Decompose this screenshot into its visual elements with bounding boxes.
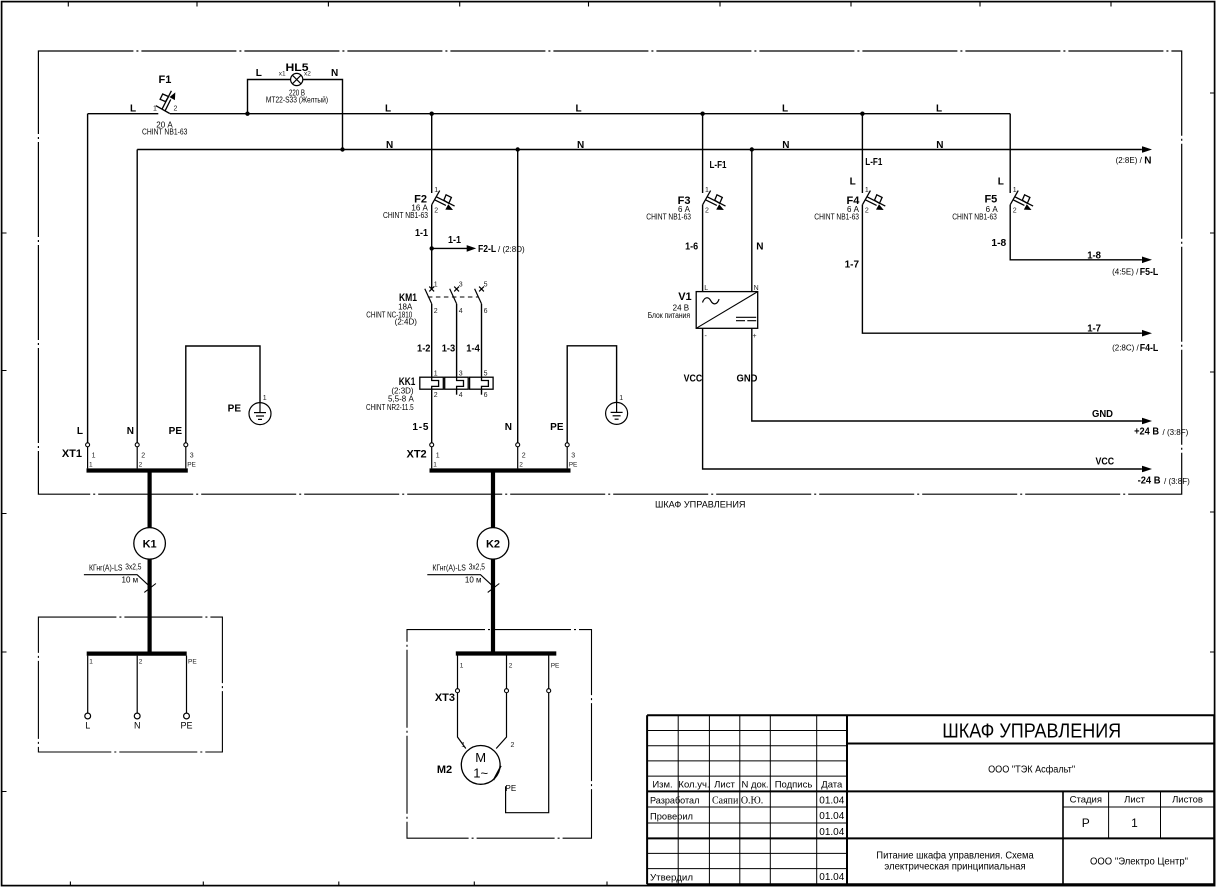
svg-text:V1: V1 — [678, 291, 691, 303]
svg-text:1-1: 1-1 — [415, 228, 428, 239]
svg-text:2: 2 — [434, 208, 438, 215]
svg-text:N: N — [1144, 155, 1151, 166]
svg-text:1: 1 — [461, 742, 465, 749]
svg-text:L: L — [256, 68, 262, 79]
svg-text:1~: 1~ — [473, 766, 488, 781]
wire XT3-PE — [548, 656, 550, 689]
wire KK1 stub 4 — [456, 389, 458, 395]
svg-text:Разработал: Разработал — [650, 796, 699, 807]
svg-text:10 м: 10 м — [465, 575, 482, 584]
svg-text:10 м: 10 м — [122, 575, 139, 584]
svg-text:Р: Р — [1082, 816, 1090, 830]
cable K1 — [84, 471, 166, 654]
svg-text:F5: F5 — [984, 194, 997, 206]
svg-text:(2:4D): (2:4D) — [395, 318, 418, 327]
svg-text:K1: K1 — [143, 538, 157, 550]
svg-text:1: 1 — [89, 658, 93, 665]
node junction N-V1 — [750, 147, 754, 151]
wire GND — [752, 328, 1142, 421]
svg-text:КГнг(А)-LS: КГнг(А)-LS — [432, 563, 466, 572]
wire motor 1 — [458, 693, 466, 749]
svg-text:КГнг(А)-LS: КГнг(А)-LS — [89, 563, 123, 572]
svg-text:2: 2 — [434, 308, 438, 315]
svg-text:2: 2 — [1013, 208, 1017, 215]
svg-text:2: 2 — [511, 742, 515, 749]
svg-text:1-4: 1-4 — [466, 344, 480, 355]
node N rail arrow — [1142, 146, 1152, 153]
svg-text:2: 2 — [519, 462, 523, 469]
svg-text:Лист: Лист — [1124, 795, 1145, 806]
svg-text:2: 2 — [141, 452, 145, 459]
svg-text:Блок питания: Блок питания — [648, 311, 690, 320]
breaker F4 — [814, 157, 885, 271]
svg-text:01.04: 01.04 — [819, 827, 844, 838]
svg-text:6: 6 — [484, 392, 488, 399]
wire 1-7 F4 out — [862, 205, 1142, 334]
svg-text:L: L — [998, 177, 1004, 188]
breaker F2 — [383, 187, 455, 220]
svg-text:3: 3 — [459, 282, 463, 289]
svg-text:L: L — [704, 285, 708, 292]
svg-text:Дата: Дата — [821, 780, 843, 791]
wire 1-2 KM1 to KK1 pole1 — [431, 304, 433, 377]
wire 1-5 KK1 to XT2 — [431, 389, 433, 443]
wire 1-3 KM1 to KK1 pole2 — [456, 304, 458, 377]
wire 1-4 KM1 to KK1 pole3 — [481, 304, 483, 377]
svg-text:PE: PE — [169, 426, 183, 437]
wire motor PE return — [506, 693, 549, 813]
svg-text:2: 2 — [174, 105, 178, 112]
svg-text:1-5: 1-5 — [412, 422, 428, 433]
svg-text:Подпись: Подпись — [775, 780, 813, 791]
wire XT1-2 to bar — [136, 447, 138, 469]
svg-text:2: 2 — [509, 663, 513, 670]
svg-text:(4:5E) /: (4:5E) / — [1112, 268, 1139, 277]
svg-text:N: N — [386, 140, 393, 151]
wire XT2 PE riser — [567, 346, 616, 443]
svg-text:(2:8C) /: (2:8C) / — [1112, 343, 1139, 352]
wire motor 2 — [496, 693, 506, 749]
wire XT2-2 to bar — [517, 447, 519, 469]
wire XT3-1 — [457, 656, 459, 689]
terminal XT2 — [407, 422, 579, 469]
svg-text:1: 1 — [263, 395, 267, 402]
svg-text:N: N — [577, 140, 584, 151]
svg-text:01.04: 01.04 — [819, 795, 844, 806]
svg-text:XT2: XT2 — [407, 449, 427, 461]
svg-text:CHINT NR2-11.5: CHINT NR2-11.5 — [366, 403, 414, 412]
power supply V1 — [648, 285, 759, 385]
load box 1 — [38, 617, 222, 752]
svg-text:/ (2:8D): / (2:8D) — [498, 245, 525, 254]
svg-text:1: 1 — [705, 187, 709, 194]
wire F5 feed — [1009, 114, 1011, 193]
svg-text:L-F1: L-F1 — [710, 160, 727, 171]
svg-text:1: 1 — [434, 187, 438, 194]
svg-text:N: N — [134, 721, 141, 731]
svg-text:PE: PE — [551, 663, 560, 670]
breaker F5 — [952, 177, 1033, 249]
svg-text:N: N — [127, 426, 134, 437]
svg-text:L-F1: L-F1 — [865, 157, 882, 168]
svg-text:N док.: N док. — [741, 780, 768, 791]
motor M2 — [437, 742, 516, 793]
svg-text:4: 4 — [459, 308, 463, 315]
svg-text:01.04: 01.04 — [819, 811, 844, 822]
wire XT2-1 to bar — [431, 447, 433, 469]
load box 2 (motor) — [407, 630, 592, 839]
svg-text:4: 4 — [459, 392, 463, 399]
svg-text:1: 1 — [436, 452, 440, 459]
svg-text:2: 2 — [139, 462, 143, 469]
node junction N-lamp — [340, 147, 344, 151]
wire 1-8 F5 out — [1010, 205, 1142, 260]
svg-text:Утвердил: Утвердил — [650, 872, 693, 883]
svg-text:2: 2 — [139, 658, 143, 665]
title block — [647, 715, 1214, 884]
svg-text:N: N — [505, 422, 512, 433]
svg-text:3: 3 — [571, 452, 575, 459]
svg-text:3: 3 — [459, 371, 463, 378]
svg-text:L: L — [77, 426, 83, 437]
svg-text:x2: x2 — [304, 71, 311, 78]
svg-text:PE: PE — [188, 658, 197, 665]
lamp HL5 — [256, 62, 338, 105]
svg-text:3x2,5: 3x2,5 — [469, 563, 486, 572]
svg-text:GND: GND — [737, 373, 758, 384]
svg-text:K2: K2 — [486, 538, 500, 550]
node junction L-F2 — [430, 112, 434, 116]
svg-text:PE: PE — [506, 784, 517, 793]
wire XT1 PE riser — [186, 346, 260, 443]
svg-text:N: N — [936, 140, 943, 151]
svg-text:1: 1 — [1131, 816, 1138, 830]
svg-text:1: 1 — [619, 395, 623, 402]
wire XT1 L drop — [87, 114, 89, 443]
svg-text:(2:8E) /: (2:8E) / — [1116, 156, 1143, 165]
load box 2 bus bar — [456, 651, 557, 655]
svg-text:N: N — [754, 285, 759, 292]
svg-text:1-8: 1-8 — [991, 238, 1006, 249]
wire XT2-3 to bar — [566, 447, 568, 469]
box1 terminals — [85, 658, 198, 730]
node junction L-lamp — [245, 112, 249, 116]
wire F4 feed — [861, 114, 863, 193]
wire KK1 stub 6 — [481, 389, 483, 395]
svg-text:F1: F1 — [159, 74, 172, 86]
svg-text:Изм.: Изм. — [652, 780, 672, 791]
svg-text:F5-L: F5-L — [1140, 267, 1159, 278]
svg-text:Проверил: Проверил — [650, 811, 693, 822]
svg-text:x1: x1 — [279, 71, 286, 78]
svg-text:1: 1 — [89, 462, 93, 469]
wire 1-1 F2 to KM1 — [431, 205, 433, 290]
wire XT1-3 to bar — [185, 447, 187, 469]
svg-text:3: 3 — [190, 452, 194, 459]
wire box1 N — [136, 656, 138, 714]
svg-text:/ (3:8F): / (3:8F) — [1163, 428, 1189, 437]
wire lamp branch left — [248, 80, 291, 114]
svg-text:/ (3:8F): / (3:8F) — [1164, 477, 1190, 486]
svg-text:1-8: 1-8 — [1087, 250, 1101, 261]
svg-text:2: 2 — [522, 452, 526, 459]
terminal XT1 — [62, 426, 197, 469]
svg-text:1-1: 1-1 — [448, 235, 461, 246]
svg-text:1: 1 — [433, 462, 437, 469]
cabinet label ШКАФ УПРАВЛЕНИЯ — [655, 500, 746, 511]
wire L rail — [88, 113, 1011, 115]
svg-text:ШКАФ УПРАВЛЕНИЯ: ШКАФ УПРАВЛЕНИЯ — [655, 500, 746, 511]
node off-page labels right — [385, 104, 1190, 487]
svg-text:XT3: XT3 — [435, 692, 455, 704]
svg-text:Стадия: Стадия — [1070, 795, 1102, 806]
svg-text:1: 1 — [153, 105, 157, 112]
svg-text:GND: GND — [1092, 409, 1113, 420]
load box 1 bus bar — [87, 651, 187, 655]
svg-text:F4-L: F4-L — [1140, 343, 1159, 354]
wire box1 PE — [186, 656, 188, 714]
svg-text:1: 1 — [865, 187, 869, 194]
terminal XT3 — [435, 663, 560, 704]
svg-text:XT1: XT1 — [62, 448, 82, 460]
svg-text:1: 1 — [434, 282, 438, 289]
wire F2 feed — [431, 114, 433, 193]
svg-text:ООО "ТЭК Асфальт": ООО "ТЭК Асфальт" — [988, 763, 1075, 775]
wire XT3-2 — [506, 656, 508, 689]
svg-text:Лист: Лист — [714, 780, 735, 791]
svg-text:1-7: 1-7 — [1087, 323, 1101, 334]
svg-text:PE: PE — [550, 422, 564, 433]
svg-text:5: 5 — [484, 371, 488, 378]
wire box1 L — [87, 656, 89, 714]
svg-text:+24 В: +24 В — [1134, 427, 1159, 438]
svg-text:MT22-S33 (Желтый): MT22-S33 (Желтый) — [266, 95, 328, 104]
svg-text:F2-L: F2-L — [478, 244, 496, 255]
svg-text:VCC: VCC — [684, 373, 703, 384]
svg-text:Саяпи О.Ю.: Саяпи О.Ю. — [712, 796, 763, 807]
svg-text:1-6: 1-6 — [685, 242, 698, 253]
svg-text:1: 1 — [92, 452, 96, 459]
svg-text:ШКАФ УПРАВЛЕНИЯ: ШКАФ УПРАВЛЕНИЯ — [942, 721, 1121, 743]
svg-text:1: 1 — [1013, 187, 1017, 194]
svg-text:CHINT NB1-63: CHINT NB1-63 — [142, 127, 188, 136]
svg-text:2: 2 — [865, 208, 869, 215]
wire F2-L tap arrow — [432, 247, 467, 249]
thermal relay KK1 — [366, 371, 493, 433]
wire XT1 N drop — [136, 150, 138, 444]
svg-text:CHINT NB1-63: CHINT NB1-63 — [814, 213, 859, 222]
XT2 bus bar — [430, 468, 571, 472]
svg-text:2: 2 — [705, 208, 709, 215]
svg-text:2: 2 — [434, 392, 438, 399]
wire VCC — [703, 328, 1142, 469]
svg-text:N: N — [782, 140, 789, 151]
svg-text:PE: PE — [569, 462, 578, 469]
wire XT1-1 to bar — [87, 447, 89, 469]
svg-text:1: 1 — [434, 371, 438, 378]
svg-text:L: L — [85, 721, 90, 731]
svg-text:6: 6 — [484, 308, 488, 315]
breaker F3 — [646, 160, 763, 253]
svg-text:L: L — [782, 104, 788, 115]
XT1 bus bar — [87, 468, 188, 472]
svg-text:1-7: 1-7 — [845, 260, 860, 271]
ground PE 1 — [228, 395, 271, 425]
svg-text:M2: M2 — [437, 764, 452, 776]
svg-text:1-3: 1-3 — [442, 344, 456, 355]
cable K2 — [427, 471, 509, 654]
svg-text:L: L — [936, 104, 942, 115]
title block texts — [650, 721, 1203, 884]
ground PE 2 — [606, 395, 628, 424]
svg-text:L: L — [576, 104, 582, 115]
svg-text:+: + — [753, 333, 757, 340]
node junction N-XT2 — [516, 147, 520, 151]
svg-text:электрическая принципиальная: электрическая принципиальная — [884, 862, 1025, 873]
cabinet boundary box (dash-dot) — [38, 51, 1181, 494]
svg-text:3x2,5: 3x2,5 — [125, 563, 142, 572]
contactor KM1 — [366, 282, 487, 355]
svg-text:-: - — [705, 333, 708, 340]
wire lamp branch right — [303, 80, 343, 150]
svg-text:01.04: 01.04 — [819, 872, 844, 883]
svg-text:CHINT NB1-63: CHINT NB1-63 — [952, 213, 997, 222]
node 1-1 labels — [415, 228, 525, 255]
svg-text:L: L — [850, 177, 856, 188]
svg-text:L: L — [385, 104, 391, 115]
wire 1-6 F3 to V1 — [702, 205, 704, 292]
wire V1 N drop — [751, 150, 753, 292]
node junction L-F3 — [700, 112, 704, 116]
node junction F2-L tap — [430, 246, 434, 250]
svg-text:5: 5 — [484, 282, 488, 289]
svg-text:N: N — [331, 68, 338, 79]
svg-text:PE: PE — [187, 462, 196, 469]
svg-text:Листов: Листов — [1172, 795, 1203, 806]
wire F3 feed — [702, 114, 704, 193]
svg-text:CHINT NB1-63: CHINT NB1-63 — [646, 213, 691, 222]
svg-text:ООО "Электро Центр": ООО "Электро Центр" — [1090, 857, 1188, 868]
svg-text:CHINT NB1-63: CHINT NB1-63 — [383, 211, 428, 220]
svg-text:N: N — [756, 242, 763, 253]
breaker F1 — [130, 74, 188, 136]
wire N rail — [137, 149, 1142, 151]
svg-text:1-2: 1-2 — [417, 344, 431, 355]
svg-text:PE: PE — [180, 721, 192, 731]
svg-text:Питание шкафа управления. Схем: Питание шкафа управления. Схема — [876, 850, 1034, 862]
wire XT2 N drop — [517, 150, 519, 444]
svg-text:1: 1 — [460, 663, 464, 670]
svg-text:L: L — [130, 104, 136, 115]
svg-text:M: M — [475, 750, 486, 765]
node junction L-F4 — [860, 112, 864, 116]
svg-text:PE: PE — [228, 404, 242, 415]
svg-text:Кол.уч.: Кол.уч. — [678, 780, 709, 791]
svg-text:VCC: VCC — [1096, 457, 1115, 468]
svg-text:-24 В: -24 В — [1138, 476, 1161, 487]
